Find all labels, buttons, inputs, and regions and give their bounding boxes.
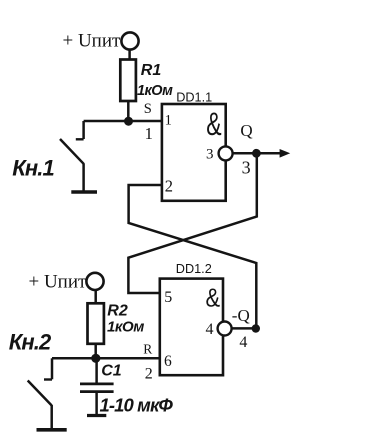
svg-text:R1: R1: [141, 62, 162, 79]
ground C1: [87, 414, 106, 417]
svg-text:DD1.1: DD1.1: [176, 91, 212, 105]
svg-text:DD1.2: DD1.2: [176, 262, 212, 276]
op-amp U1: NAND gate DD1.1 body: [162, 104, 226, 201]
node R junction: [91, 354, 100, 363]
svg-text:&: &: [206, 106, 222, 142]
button Kn.1 switch: [60, 121, 84, 191]
wire -Q output: [232, 327, 253, 330]
wire terminal to R2: [94, 290, 97, 303]
inversion bubble DD1.1: [219, 146, 233, 160]
svg-text:+ Uпит: + Uпит: [29, 272, 88, 293]
resistor R2: [88, 303, 104, 344]
wire R2 to node R: [94, 344, 97, 358]
node S junction: [124, 117, 133, 126]
svg-text:1-10 мкФ: 1-10 мкФ: [100, 395, 174, 416]
svg-text:Кн.1: Кн.1: [12, 156, 54, 181]
ground Kn.1: [71, 190, 97, 194]
ground Kn.2: [37, 428, 67, 432]
power terminal +Upit bottom: [86, 273, 103, 290]
svg-text:1: 1: [165, 112, 172, 128]
svg-text:-Q: -Q: [232, 306, 250, 325]
svg-text:3: 3: [206, 147, 214, 163]
op-amp U2: NAND gate DD1.2 body: [160, 279, 223, 376]
wire Q feedback to DD1.2 pin5: [128, 153, 256, 293]
svg-text:4: 4: [239, 334, 247, 351]
node -Q junction: [252, 324, 260, 332]
svg-text:S: S: [144, 101, 152, 117]
svg-text:1кОм: 1кОм: [107, 319, 144, 336]
svg-text:5: 5: [164, 289, 172, 306]
button Kn.2 switch: [28, 358, 52, 428]
svg-text:R: R: [143, 342, 152, 357]
wire pin1 horizontal: [84, 120, 162, 123]
svg-text:2: 2: [165, 177, 173, 196]
svg-text:C1: C1: [101, 363, 122, 380]
svg-text:3: 3: [242, 157, 251, 177]
svg-text:R2: R2: [107, 303, 128, 320]
resistor R1: [120, 60, 136, 102]
svg-text:Q: Q: [240, 121, 252, 140]
capacitor C1: [80, 358, 114, 415]
arrow head Q: [280, 149, 291, 158]
power terminal +Upit top: [121, 32, 138, 49]
svg-text:Кн.2: Кн.2: [9, 330, 52, 355]
svg-text:+ Uпит: + Uпит: [63, 31, 122, 52]
wire pin6 horizontal: [52, 357, 160, 360]
svg-text:&: &: [206, 284, 221, 313]
wire DD1.1 pin2 to -Q feedback: [129, 185, 257, 329]
wire terminal to R1: [128, 50, 131, 60]
svg-text:2: 2: [145, 366, 153, 383]
inversion bubble DD1.2: [218, 322, 232, 336]
svg-text:1: 1: [145, 124, 154, 143]
svg-text:6: 6: [164, 353, 172, 370]
svg-text:1кОм: 1кОм: [137, 83, 173, 99]
wire R1 to node S: [127, 101, 130, 121]
svg-text:4: 4: [206, 321, 214, 338]
wire Q output: [233, 152, 281, 155]
node Q junction: [252, 149, 261, 158]
